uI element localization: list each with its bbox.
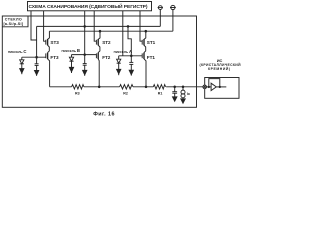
svg-text:СТЕКЛО: СТЕКЛО [5, 17, 22, 21]
resistor R1 [153, 85, 165, 89]
node: feedback tap input [208, 86, 209, 87]
transistor ST2 [95, 40, 97, 45]
photodiode D2 [71, 55, 73, 58]
transistor FT1 [141, 53, 143, 58]
svg-text:КРЕМНИЙ): КРЕМНИЙ) [208, 67, 230, 71]
wire: gate line ST2 from shift register [94, 11, 96, 41]
svg-text:R3: R3 [75, 92, 80, 96]
wire: bias rail 1 [37, 25, 161, 27]
wire: T1 stem down to rail 1 [159, 10, 161, 27]
resistor R2 [120, 85, 133, 89]
wire: amp input [207, 86, 212, 88]
IC box [205, 78, 239, 99]
node: rail2 / ST1 drain [145, 30, 147, 32]
svg-text:[a-Si/p-Si]: [a-Si/p-Si] [3, 22, 23, 26]
resistor R3 [72, 85, 84, 89]
ground (D2) [69, 67, 73, 71]
svg-text:ПИКСЕЛЬ B: ПИКСЕЛЬ B [62, 48, 80, 53]
svg-text:ST2: ST2 [102, 40, 111, 45]
terminal T2 (bias 2) [171, 5, 175, 9]
wire: cell B node line [72, 54, 97, 56]
photodiode D3 [21, 57, 23, 60]
node: bus / FT1 [145, 86, 147, 88]
ground (C2) [83, 70, 87, 74]
pad terminal (IC input) [203, 85, 207, 89]
transistor ST3 [45, 40, 47, 45]
photodiode D1 [118, 56, 120, 59]
node: cell A storage node [131, 55, 133, 57]
svg-text:FT1: FT1 [147, 55, 156, 60]
ground (C1) [129, 70, 133, 74]
op-amp U1 [211, 83, 216, 90]
capacitor C3 [35, 63, 39, 65]
ground (D3) [20, 69, 24, 73]
transistor FT2 [95, 53, 97, 58]
svg-text:Iо: Iо [187, 92, 190, 96]
svg-text:FT2: FT2 [102, 55, 111, 60]
wire: cell A node line [119, 55, 143, 57]
wire: T2 stem down to rail 2 [172, 10, 174, 32]
ground (C3) [35, 71, 39, 75]
wire: rail1 jog down to cell A storage node [128, 26, 131, 62]
glass substrate boundary [2, 16, 196, 107]
wire: feedback loop [209, 79, 220, 87]
wire: cell C node line [22, 56, 46, 58]
capacitor C1 [129, 61, 133, 63]
svg-text:FT3: FT3 [50, 55, 59, 60]
node: cell C storage node [36, 56, 38, 58]
node: bus / FT2 [98, 86, 100, 88]
svg-text:ПИКСЕЛЬ A: ПИКСЕЛЬ A [114, 49, 132, 54]
scanning circuit box (shift register) U10 [28, 2, 152, 11]
svg-text:R1: R1 [158, 91, 163, 95]
ground (D1) [117, 69, 121, 73]
ground (C0) [173, 97, 177, 101]
wire: cell C node drop from shift register with jog [31, 11, 37, 40]
wire: output bus [50, 86, 203, 88]
wire: amp output [216, 86, 226, 88]
wire: gate line ST1 from shift register [140, 11, 142, 41]
svg-text:R2: R2 [123, 92, 128, 96]
svg-text:Фиг. 16: Фиг. 16 [93, 111, 114, 117]
capacitor C2 [83, 63, 87, 65]
node: rail1 / cell B [84, 26, 86, 28]
ground (I0) [181, 99, 185, 103]
wire: bias rail 2 [49, 30, 172, 32]
node: cell B storage node [84, 54, 86, 56]
node: feedback tap output [219, 86, 220, 87]
terminal T1 (bias 1) [158, 6, 162, 10]
node: rail2 / ST2 drain [99, 30, 101, 32]
wire: rail1 left end down to cell C storage node [36, 26, 38, 63]
node: bus / current source [182, 86, 184, 88]
node: bus / load capacitor [174, 86, 176, 88]
svg-text:ST1: ST1 [147, 40, 156, 45]
glass label box [2, 16, 28, 27]
transistor FT3 [45, 53, 47, 58]
wire: gate line ST3 from shift register [44, 11, 46, 41]
svg-text:ПИКСЕЛЬ C: ПИКСЕЛЬ C [8, 49, 26, 54]
current source I0 [182, 87, 184, 90]
transistor ST1 [141, 40, 143, 45]
wire: cell B node drop from shift register [84, 11, 86, 64]
node: rail1 / cell A [127, 26, 129, 28]
load capacitor C0 [174, 87, 176, 92]
svg-text:ST3: ST3 [50, 40, 59, 45]
wire: cell A node drop from shift register [122, 11, 124, 56]
